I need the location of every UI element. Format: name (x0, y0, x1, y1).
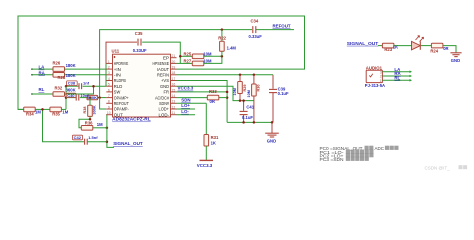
svg-text:1M: 1M (97, 122, 103, 127)
svg-text:10M: 10M (233, 88, 237, 95)
svg-text:1K: 1K (211, 141, 216, 146)
wire SDN to R31 (205, 103, 207, 134)
svg-text:R26: R26 (53, 61, 61, 66)
wire (98, 97, 107, 99)
junction (41, 108, 44, 111)
svg-text:REFOUT: REFOUT (273, 23, 291, 28)
svg-text:1.4M: 1.4M (227, 45, 237, 50)
svg-text:10: 10 (107, 111, 111, 115)
svg-text:11: 11 (172, 111, 176, 115)
svg-text:7: 7 (108, 94, 110, 98)
svg-text:180K: 180K (66, 63, 76, 68)
svg-text:IAOUT: IAOUT (157, 67, 169, 72)
svg-text:PC3 =SDN: PC3 =SDN (320, 157, 344, 162)
wire R22 top lead (221, 30, 223, 42)
svg-text:C38: C38 (68, 81, 76, 86)
wire RL (32, 93, 53, 95)
wire R38 bottom loop (79, 116, 90, 127)
svg-text:R24: R24 (430, 48, 438, 53)
wire +VS row (177, 81, 228, 123)
wire (421, 45, 432, 47)
junction on top wire (221, 28, 224, 31)
svg-text:RL: RL (39, 87, 45, 92)
resistor R24 (431, 43, 443, 48)
wire extra vertical (105, 63, 107, 86)
label C38 boxed (67, 81, 78, 86)
svg-text:0.33uF: 0.33uF (249, 34, 263, 39)
svg-text:C35: C35 (135, 31, 143, 36)
wire (35, 108, 50, 110)
svg-text:0R: 0R (210, 99, 215, 104)
svg-text:LO+: LO+ (181, 103, 190, 108)
resistor R30 (252, 84, 257, 96)
svg-text:SIGNAL_OUT: SIGNAL_OUT (347, 41, 379, 46)
connector P2 body (366, 70, 382, 82)
resistor R27 (192, 61, 204, 66)
wire REFIN rail (177, 74, 274, 76)
wire (394, 45, 412, 47)
wire GND row (177, 86, 254, 100)
svg-text:GND: GND (267, 139, 276, 144)
svg-text:REFOUT: REFOUT (114, 101, 129, 106)
wire (87, 141, 107, 143)
svg-text:15: 15 (172, 88, 176, 92)
wire from R34 R35 junction (43, 109, 85, 141)
wire (18, 108, 24, 110)
svg-text:R32: R32 (55, 86, 63, 91)
resistor R35 (50, 107, 62, 112)
svg-text:3: 3 (108, 71, 110, 75)
wire OPAMP+ row (66, 97, 76, 99)
wire REFOUT net top (100, 30, 252, 98)
resistor R28 (53, 73, 65, 78)
label C40 boxed (66, 93, 76, 97)
svg-text:R31: R31 (211, 135, 219, 140)
wire vertical (65, 86, 67, 109)
svg-text:1M: 1M (35, 110, 41, 115)
svg-text:U11: U11 (112, 48, 120, 53)
svg-text:4: 4 (108, 77, 110, 81)
port stub RA (31, 74, 33, 76)
svg-text:RLDFB: RLDFB (114, 78, 126, 83)
port stub LA (31, 68, 33, 70)
resistor R25 (192, 54, 204, 59)
wire SDN row (177, 102, 207, 104)
junction (226, 96, 229, 99)
wire FR row (177, 91, 228, 93)
svg-text:1: 1 (108, 60, 110, 64)
svg-text:C40: C40 (67, 93, 75, 98)
resistor R33 (207, 95, 219, 100)
svg-text:R22: R22 (218, 35, 226, 40)
svg-text:GND: GND (160, 84, 170, 89)
capacitor C35 (138, 39, 141, 46)
wire (80, 97, 87, 99)
svg-text:16: 16 (172, 83, 176, 87)
svg-text:HPDRIVE: HPDRIVE (114, 61, 129, 66)
wire (93, 127, 107, 129)
wire (205, 146, 207, 160)
resistor R32 (53, 92, 65, 97)
svg-text:LOD+: LOD+ (159, 107, 170, 112)
svg-text:2: 2 (108, 66, 110, 70)
wire LA out (382, 71, 409, 73)
wire (83, 85, 107, 87)
svg-text:0.1uF: 0.1uF (278, 91, 289, 96)
junction (253, 121, 256, 124)
junction (226, 91, 229, 94)
svg-text:12: 12 (172, 105, 176, 109)
svg-text:PJ-313-5A: PJ-313-5A (365, 83, 385, 88)
svg-text:R35: R35 (52, 111, 60, 116)
wire (378, 45, 382, 47)
resistor R31 (204, 135, 209, 147)
resistor 650K (87, 95, 98, 99)
junction (106, 140, 109, 143)
svg-text:+IN: +IN (114, 67, 121, 72)
svg-text:5: 5 (108, 83, 110, 87)
capacitor C40 (76, 95, 79, 101)
svg-text:VCC3.3: VCC3.3 (197, 163, 213, 168)
wire OPAMP- link (100, 98, 107, 109)
svg-text:CSDN @IT_: CSDN @IT_ (425, 165, 451, 170)
ground GND right (450, 52, 461, 54)
connector check (369, 74, 373, 77)
svg-text:C41: C41 (246, 104, 254, 109)
wire (219, 97, 227, 99)
wire R38 top lead (89, 98, 91, 106)
LED D1 (412, 41, 421, 49)
svg-text:SIGNAL_OUT: SIGNAL_OUT (113, 141, 143, 146)
resistor R23 (382, 43, 394, 48)
wire (65, 68, 107, 70)
capacitor C39 (272, 75, 274, 89)
wire LOD+ row (177, 108, 196, 110)
wire LA (32, 68, 53, 70)
wire OUT down (106, 115, 114, 148)
svg-text:OPAMP-: OPAMP- (114, 107, 129, 112)
svg-text:SDN: SDN (181, 98, 190, 103)
svg-text:1M: 1M (62, 110, 68, 115)
junction (98, 96, 101, 99)
junction (106, 127, 109, 130)
svg-text:R25: R25 (184, 51, 192, 56)
svg-text:20: 20 (172, 60, 176, 64)
svg-text:R33: R33 (209, 89, 217, 94)
svg-text:SDN#: SDN# (159, 101, 169, 106)
junction (253, 74, 256, 77)
svg-text:RL: RL (394, 76, 400, 81)
junction (242, 121, 245, 124)
svg-text:1: 1 (380, 79, 382, 83)
svg-text:14: 14 (172, 94, 176, 98)
svg-text:R36: R36 (85, 121, 93, 126)
capacitor C42 (85, 139, 88, 145)
svg-text:RA: RA (39, 70, 46, 75)
junction (92, 85, 95, 88)
wire (65, 74, 107, 76)
svg-text:10M: 10M (203, 51, 212, 56)
svg-text:R23: R23 (384, 47, 392, 52)
op-amp U1 AD8232 body (113, 54, 171, 117)
capacitor C41 (243, 101, 245, 111)
svg-text:6: 6 (108, 88, 110, 92)
svg-text:R38: R38 (83, 107, 87, 114)
wire ground rail (227, 121, 272, 123)
svg-text:C34: C34 (251, 19, 259, 24)
svg-text:HPSENSE: HPSENSE (153, 61, 170, 66)
wire R25 row (180, 55, 192, 57)
svg-text:C42: C42 (74, 135, 82, 140)
junction (271, 121, 274, 124)
resistor R26 (53, 67, 65, 72)
svg-text:19: 19 (172, 66, 176, 70)
svg-text:1.5nf: 1.5nf (88, 135, 98, 140)
wire C35 to R25 column (142, 42, 180, 63)
svg-text:1K: 1K (393, 44, 398, 49)
svg-text:21: 21 (172, 54, 176, 58)
svg-text:FR: FR (164, 90, 170, 95)
capacitor C34 (253, 26, 256, 33)
wire HPDRIVE to C35 (106, 42, 137, 63)
wire IAOUT loop around sheet (18, 16, 305, 109)
svg-text:1nf: 1nf (83, 81, 90, 86)
svg-text:EP: EP (163, 55, 169, 60)
svg-text:R30: R30 (257, 85, 261, 92)
svg-text:8: 8 (108, 100, 110, 104)
wire (204, 56, 222, 63)
resistor R22 (220, 41, 225, 51)
svg-text:R28: R28 (58, 75, 66, 80)
svg-text:AD8232ACPZ-RL: AD8232ACPZ-RL (112, 117, 151, 122)
wire (61, 108, 66, 110)
svg-text:OPAMP+: OPAMP+ (114, 95, 129, 100)
svg-text:0.1uF: 0.1uF (242, 115, 253, 120)
svg-text:LA: LA (39, 65, 46, 70)
wire RL out (382, 79, 409, 81)
junction (239, 99, 242, 102)
wire ACDC row (177, 97, 208, 99)
wire (204, 55, 222, 57)
resistor R34 (24, 107, 36, 112)
resistor R29 (238, 82, 243, 94)
svg-text:LO-: LO- (181, 109, 189, 114)
svg-text:LOD-: LOD- (159, 112, 170, 117)
svg-text:+VS: +VS (161, 78, 169, 83)
svg-text:9: 9 (108, 105, 110, 109)
svg-text:ADC: ADC (375, 146, 385, 151)
svg-text:17: 17 (172, 77, 176, 81)
svg-text:10M: 10M (247, 90, 251, 97)
svg-text:-IN: -IN (114, 73, 121, 78)
ground GND middle (271, 122, 273, 133)
svg-text:0R: 0R (443, 46, 448, 51)
svg-text:GND: GND (451, 58, 460, 63)
svg-text:R27: R27 (184, 59, 192, 64)
svg-text:10M: 10M (203, 59, 212, 64)
svg-text:RLD: RLD (114, 84, 123, 89)
svg-text:REFIN: REFIN (157, 73, 169, 78)
svg-text:300K: 300K (92, 105, 96, 114)
capacitor C38 (79, 83, 82, 89)
port stub RL (31, 93, 33, 95)
power VCC3.3 bar (200, 159, 214, 161)
junction (179, 55, 182, 58)
junction (89, 96, 92, 99)
junction (89, 118, 92, 121)
svg-text:0.33UF: 0.33UF (133, 48, 147, 53)
wire to gnd (443, 46, 456, 53)
resistor R38 (88, 105, 93, 116)
wire RL to RLD row (65, 86, 94, 94)
svg-text:SW: SW (114, 90, 121, 95)
resistor R36 (81, 126, 93, 131)
svg-text:AC/DC#: AC/DC# (155, 95, 169, 100)
label C42 boxed (72, 135, 82, 140)
wire (256, 29, 294, 31)
wire RA out (382, 75, 409, 77)
svg-text:R34: R34 (26, 111, 34, 116)
svg-text:13: 13 (172, 100, 176, 104)
wire RLD row (66, 85, 78, 87)
junction (221, 55, 224, 58)
wire LOD- row (177, 114, 196, 116)
junction (65, 96, 68, 99)
wire RA (32, 74, 53, 76)
junction (239, 74, 242, 77)
svg-text:18: 18 (172, 71, 176, 75)
wire R22 bottom lead (221, 51, 223, 56)
junction (65, 85, 68, 88)
svg-text:180K: 180K (66, 73, 76, 78)
wire R27 row from HPSENSE (177, 62, 193, 64)
junction (242, 99, 245, 102)
